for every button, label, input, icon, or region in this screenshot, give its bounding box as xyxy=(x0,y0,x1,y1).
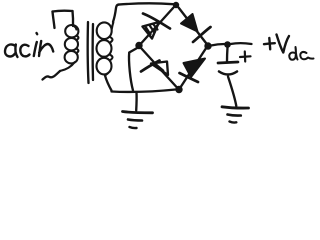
wire: bottom rail (secondary bottom / left-node drop / ground to bottom node) xyxy=(112,90,176,92)
cap top stem xyxy=(226,48,229,62)
wire: secondary bottom lead to rail xyxy=(105,76,112,91)
diode D1 cathode bar xyxy=(143,14,170,29)
capacitor C1 xyxy=(218,48,251,107)
ground bar 1 xyxy=(222,107,249,108)
diode D2 cathode bar xyxy=(141,61,160,72)
wire: junction to +Vdc output xyxy=(231,42,252,45)
wire: bridge edge top-right (top node to right node) xyxy=(179,8,207,44)
wire: secondary top terminal xyxy=(113,5,119,22)
plus sign horizontal xyxy=(264,43,275,44)
transformer T primary winding xyxy=(60,25,78,71)
transformer core line 1 xyxy=(86,22,89,83)
letter a xyxy=(5,44,18,57)
label "+Vdc" xyxy=(264,35,314,60)
node: bridge bottom xyxy=(175,86,182,93)
wire: ac-in left lead (vertical drop) xyxy=(53,12,55,29)
ground bar 1 xyxy=(123,112,153,113)
wire: bridge edge top-left (top node to left node) xyxy=(141,8,174,44)
letter c xyxy=(20,45,29,57)
subscript c xyxy=(300,52,313,59)
wire: top rail (secondary top to bridge top node) xyxy=(119,3,174,4)
wire: right node to cap junction xyxy=(211,44,225,46)
i dot xyxy=(35,33,38,34)
letter n xyxy=(39,41,53,56)
cap top plate xyxy=(218,62,238,63)
transformer core line 2 xyxy=(91,24,94,80)
diode D1 triangle (outline, top-left) xyxy=(143,22,160,39)
label "ac in" xyxy=(5,33,53,57)
letter i xyxy=(34,42,37,56)
wire: left node drop to rail xyxy=(129,48,138,91)
ground stem xyxy=(135,93,138,111)
cap bottom plate (curved) xyxy=(219,72,237,75)
ground bar 3 xyxy=(130,127,137,128)
cap bottom stem xyxy=(228,77,236,107)
diode D1 scribble fill xyxy=(146,25,158,35)
wire: primary bottom squiggle lead xyxy=(43,71,61,80)
diode D4 triangle (filled, bottom-right) xyxy=(184,59,206,78)
plus sign vertical xyxy=(268,38,271,49)
diode D2 scribble fill xyxy=(157,65,164,71)
subscript d xyxy=(289,47,297,60)
node: bridge top xyxy=(173,2,179,8)
diode D2 triangle (outline, bottom-left) xyxy=(151,62,168,76)
wire: bridge edge bottom-right (bottom node to right node) xyxy=(181,49,206,87)
wire: bridge edge bottom-left (left node to bottom node) xyxy=(141,48,177,87)
node: bridge right xyxy=(204,42,211,49)
ground bar 2 xyxy=(228,115,241,116)
wire: drop into primary top xyxy=(71,11,74,26)
ground symbol (right, below capacitor) xyxy=(222,107,249,123)
ground symbol (left, at rail) xyxy=(123,93,153,129)
letter V xyxy=(277,35,290,53)
diode D3 triangle (filled, top-right) xyxy=(181,14,198,32)
transformer T secondary winding xyxy=(97,22,114,75)
node: bridge left xyxy=(135,42,142,49)
ground bar 3 xyxy=(230,120,237,123)
diode D3 cathode bar xyxy=(193,27,211,42)
ground bar 2 xyxy=(128,120,142,121)
wire: ac-in top lead xyxy=(53,9,73,12)
cap polarity plus: vertical xyxy=(244,52,247,62)
cap polarity plus: horizontal xyxy=(240,55,251,58)
diode D4 cathode bar xyxy=(180,73,199,82)
node: capacitor junction xyxy=(224,41,231,48)
